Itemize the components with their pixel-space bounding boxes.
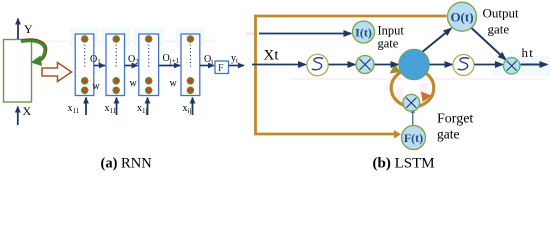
svg-text:(a) RNN: (a) RNN <box>101 156 153 172</box>
svg-text:gate: gate <box>437 127 460 142</box>
svg-text:gate: gate <box>488 22 510 37</box>
svg-text:ht: ht <box>522 45 535 60</box>
svg-text:w: w <box>93 81 101 92</box>
svg-text:Output: Output <box>483 6 520 21</box>
svg-text:w: w <box>170 78 178 89</box>
svg-text:O(t): O(t) <box>450 10 473 25</box>
svg-text:F: F <box>218 63 224 74</box>
svg-text:gate: gate <box>378 37 399 51</box>
svg-text:(b) LSTM: (b) LSTM <box>373 156 435 172</box>
svg-text:I(t): I(t) <box>355 25 372 39</box>
svg-text:X: X <box>23 104 32 118</box>
svg-text:Input: Input <box>378 24 405 38</box>
svg-text:Forget: Forget <box>437 112 473 127</box>
svg-text:Xt: Xt <box>264 48 280 64</box>
svg-text:Y: Y <box>24 22 33 36</box>
svg-text:F(t): F(t) <box>404 131 423 145</box>
svg-text:w: w <box>130 78 138 89</box>
